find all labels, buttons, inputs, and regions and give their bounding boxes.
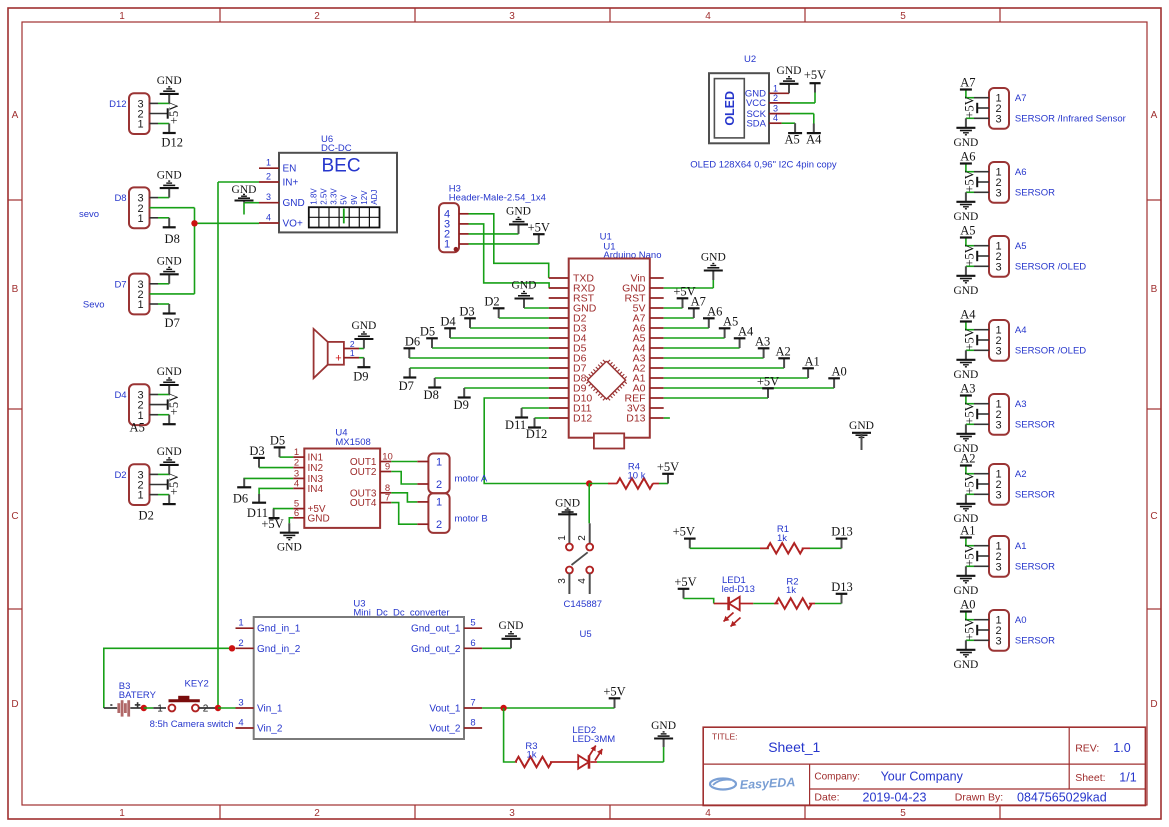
wire [218, 181, 259, 183]
svg-text:3: 3 [773, 104, 778, 114]
svg-text:+5V: +5V [963, 244, 977, 266]
DC-DC converter U6 (BEC) [259, 134, 397, 232]
svg-text:D12: D12 [109, 99, 126, 110]
wire [664, 417, 670, 419]
node A3 [960, 382, 976, 397]
svg-text:GND: GND [953, 585, 978, 597]
wire [450, 337, 549, 339]
svg-text:REV:: REV: [1075, 743, 1099, 755]
wire [966, 539, 989, 546]
ground [232, 184, 259, 215]
title block [703, 727, 1145, 805]
pushbutton switch U5 C145887 [557, 511, 602, 640]
svg-text:1/1: 1/1 [1119, 771, 1136, 785]
svg-text:SDA: SDA [746, 119, 766, 130]
wire [782, 122, 796, 124]
svg-text:D7: D7 [165, 316, 180, 330]
svg-text:6: 6 [294, 508, 299, 519]
svg-text:1: 1 [266, 158, 271, 168]
svg-text:A1: A1 [1015, 541, 1027, 552]
wire [391, 461, 417, 463]
node A0 [828, 364, 846, 388]
wire [359, 348, 364, 350]
wire [150, 208, 195, 224]
wire [244, 477, 293, 480]
svg-text:A6: A6 [1015, 167, 1027, 178]
svg-text:GND: GND [157, 75, 182, 87]
svg-text:1: 1 [436, 497, 442, 509]
wire [966, 239, 989, 246]
svg-text:A7: A7 [1015, 93, 1027, 104]
svg-text:A: A [12, 110, 19, 121]
ground [482, 620, 523, 648]
node D4 [440, 314, 456, 338]
svg-text:2: 2 [294, 458, 299, 469]
wire [432, 347, 549, 349]
svg-text:1k: 1k [526, 750, 536, 761]
svg-text:A2: A2 [1015, 469, 1027, 480]
junction [586, 480, 592, 486]
wire [469, 233, 519, 235]
node A7 [688, 294, 706, 318]
svg-text:GND: GND [512, 280, 537, 292]
svg-text:D2: D2 [139, 509, 154, 523]
svg-text:A0: A0 [1015, 615, 1027, 626]
connector D12 [109, 93, 149, 134]
svg-text:3: 3 [995, 561, 1001, 573]
ground [953, 640, 978, 671]
svg-text:D12: D12 [526, 427, 548, 441]
svg-text:A7: A7 [691, 294, 706, 308]
ground [953, 118, 978, 149]
ground [506, 206, 531, 234]
node D3 [249, 444, 264, 468]
wire [753, 603, 774, 605]
node D13 [831, 525, 853, 549]
junction [500, 705, 506, 711]
node A4 [734, 324, 754, 348]
label camera switch [150, 719, 234, 730]
svg-text:1: 1 [557, 535, 568, 541]
microcontroller U1 Arduino Nano [549, 231, 664, 448]
wire [664, 327, 709, 329]
svg-text:motor A: motor A [455, 474, 488, 485]
svg-text:Drawn By:: Drawn By: [955, 792, 1003, 804]
connector D4 [114, 384, 149, 425]
DC-DC converter U3 [236, 599, 483, 740]
wire [391, 493, 417, 502]
wire [435, 377, 549, 379]
wire [150, 197, 170, 199]
svg-text:1: 1 [238, 618, 243, 629]
svg-text:9: 9 [385, 462, 390, 473]
wire [150, 473, 170, 475]
connector A2 [989, 464, 1055, 505]
svg-text:SERSOR /OLED: SERSOR /OLED [1015, 346, 1086, 357]
motor driver U4 MX1508 [293, 428, 393, 528]
svg-text:Sheet:: Sheet: [1075, 772, 1105, 784]
svg-text:A6: A6 [960, 150, 975, 164]
svg-text:B: B [1151, 284, 1158, 295]
svg-text:D13: D13 [831, 580, 853, 594]
wire [664, 347, 740, 349]
power +5V [963, 618, 978, 640]
power +5V [963, 96, 978, 118]
svg-text:BEC: BEC [322, 156, 361, 177]
svg-text:5: 5 [900, 808, 906, 819]
node A4 [806, 124, 822, 147]
svg-text:GND: GND [499, 620, 524, 632]
svg-text:Gnd_out_1: Gnd_out_1 [411, 624, 461, 635]
wire [966, 265, 989, 267]
svg-text:3: 3 [509, 11, 515, 22]
svg-text:5V: 5V [340, 194, 349, 204]
svg-text:D: D [1150, 699, 1157, 710]
svg-text:2: 2 [577, 535, 588, 541]
svg-text:D7: D7 [114, 280, 126, 291]
svg-text:IN+: IN+ [283, 178, 299, 189]
wire [150, 223, 195, 294]
svg-text:D6: D6 [233, 491, 248, 505]
svg-text:+5V: +5V [804, 68, 826, 82]
svg-text:4: 4 [294, 478, 299, 489]
wire [499, 317, 549, 319]
wire [664, 377, 808, 379]
svg-text:D2: D2 [484, 294, 499, 308]
node D8 [163, 218, 180, 246]
svg-text:C: C [1150, 511, 1157, 522]
ground [777, 65, 802, 93]
wire [966, 493, 989, 495]
power +5V [657, 460, 679, 484]
svg-text:4: 4 [238, 718, 243, 729]
svg-text:1: 1 [350, 348, 355, 358]
ground [157, 446, 182, 474]
wire [966, 423, 989, 425]
node D11 [247, 494, 268, 520]
svg-text:Vin_1: Vin_1 [257, 704, 283, 715]
svg-text:MX1508: MX1508 [335, 437, 370, 448]
wire [150, 102, 170, 104]
svg-text:A7: A7 [960, 76, 975, 90]
svg-text:BATERY: BATERY [119, 690, 157, 701]
svg-text:Vin_2: Vin_2 [257, 724, 283, 735]
power +5V [167, 102, 181, 124]
power +5V [963, 328, 978, 350]
svg-text:+5V: +5V [673, 525, 695, 539]
svg-text:EasyEDA: EasyEDA [739, 775, 795, 792]
svg-text:8:5h Camera switch: 8:5h Camera switch [150, 719, 234, 730]
svg-text:SERSOR: SERSOR [1015, 420, 1055, 431]
node D12 [526, 418, 548, 441]
svg-text:+5V: +5V [963, 402, 977, 424]
wire [484, 398, 589, 484]
svg-text:3: 3 [266, 192, 271, 202]
svg-text:D12: D12 [161, 136, 183, 150]
ground [157, 256, 182, 284]
ground [953, 266, 978, 297]
svg-text:D4: D4 [114, 390, 126, 401]
node D2 [484, 294, 504, 318]
svg-text:Gnd_out_2: Gnd_out_2 [411, 644, 461, 655]
svg-text:10 k: 10 k [628, 471, 646, 482]
svg-text:Sevo: Sevo [83, 300, 105, 311]
wire [482, 707, 614, 709]
wire [664, 337, 725, 339]
wire [966, 191, 989, 193]
svg-text:Header-Male-2.54_1x4: Header-Male-2.54_1x4 [449, 192, 546, 203]
wire [977, 255, 989, 257]
svg-text:0847565029kad: 0847565029kad [1017, 791, 1107, 805]
wire [464, 387, 549, 389]
svg-text:8: 8 [470, 718, 475, 729]
svg-text:3: 3 [995, 113, 1001, 125]
svg-text:Gnd_in_2: Gnd_in_2 [257, 644, 301, 655]
svg-text:+5V: +5V [963, 472, 977, 494]
svg-text:A0: A0 [831, 364, 846, 378]
connector A5 [989, 236, 1086, 277]
svg-text:OLED 128X64 0,96" I2C 4pin cop: OLED 128X64 0,96" I2C 4pin copy [690, 160, 837, 171]
svg-text:GND: GND [351, 320, 376, 332]
node A2 [775, 344, 790, 368]
junction [215, 705, 221, 711]
svg-text:2: 2 [266, 172, 271, 182]
svg-text:+5V: +5V [167, 393, 181, 415]
svg-text:D5: D5 [270, 434, 285, 448]
svg-text:2: 2 [773, 93, 778, 103]
node A1 [802, 354, 819, 378]
svg-text:SERSOR /OLED: SERSOR /OLED [1015, 262, 1086, 273]
svg-text:3: 3 [995, 261, 1001, 273]
OLED display U2 [709, 54, 790, 143]
svg-text:5: 5 [900, 11, 906, 22]
node D3 [459, 304, 475, 328]
svg-text:+5V: +5V [963, 544, 977, 566]
wire [977, 629, 989, 631]
ground [651, 720, 676, 747]
svg-text:D12: D12 [573, 413, 592, 425]
power +5V [528, 220, 550, 244]
svg-text:D6: D6 [405, 334, 420, 348]
svg-text:GND: GND [283, 198, 305, 209]
battery B3 [104, 681, 157, 717]
svg-text:A5: A5 [784, 133, 799, 147]
svg-text:SERSOR /Infrared Sensor: SERSOR /Infrared Sensor [1015, 114, 1126, 125]
svg-text:4: 4 [773, 113, 778, 123]
svg-text:VCC: VCC [746, 98, 766, 109]
ground [555, 497, 580, 514]
wire [977, 413, 989, 415]
node A5 [960, 224, 976, 239]
svg-text:+5V: +5V [657, 460, 679, 474]
node D7 [163, 304, 180, 330]
resistor R4 [608, 462, 659, 489]
node A4 [960, 308, 976, 323]
svg-text:Company:: Company: [814, 772, 860, 783]
wire [104, 648, 232, 708]
svg-text:1: 1 [773, 83, 778, 93]
svg-text:U2: U2 [744, 54, 756, 65]
svg-text:1: 1 [137, 490, 143, 502]
wire [977, 181, 989, 183]
ground [157, 366, 182, 394]
wire [966, 323, 989, 330]
wire [690, 547, 769, 549]
svg-text:OUT4: OUT4 [350, 498, 377, 509]
wire [977, 107, 989, 109]
svg-text:GND: GND [157, 446, 182, 458]
svg-text:A5: A5 [130, 421, 145, 435]
svg-text:D: D [11, 699, 18, 710]
power +5V [261, 509, 283, 531]
ground [953, 494, 978, 525]
wire [966, 613, 989, 620]
wire [195, 222, 260, 224]
wire [659, 483, 668, 485]
wire [589, 483, 608, 485]
resistor R2 [774, 577, 815, 609]
wire [150, 404, 168, 406]
wire [150, 217, 170, 219]
wire [664, 367, 784, 369]
power +5V [757, 374, 779, 398]
svg-text:3: 3 [995, 187, 1001, 199]
wire [217, 182, 219, 708]
svg-text:+5V: +5V [963, 328, 977, 350]
wire [150, 283, 170, 285]
wire [684, 599, 714, 604]
svg-text:A4: A4 [1015, 325, 1027, 336]
svg-text:sevo: sevo [79, 209, 99, 220]
wire [966, 349, 989, 351]
node D6 [404, 334, 421, 358]
wire [522, 407, 549, 409]
svg-text:9V: 9V [350, 194, 359, 204]
wire [966, 91, 989, 98]
junction [141, 705, 147, 711]
wire [259, 488, 293, 494]
svg-text:C145887: C145887 [564, 599, 603, 610]
wire [150, 113, 168, 115]
wire [966, 467, 989, 474]
svg-text:Gnd_in_1: Gnd_in_1 [257, 624, 301, 635]
svg-text:GND: GND [953, 369, 978, 381]
svg-text:6: 6 [470, 638, 475, 649]
power +5V [963, 244, 978, 266]
svg-text:3: 3 [995, 635, 1001, 647]
svg-text:A3: A3 [960, 382, 975, 396]
power +5V [963, 402, 978, 424]
LED LED1 [714, 575, 755, 626]
power +5V [167, 393, 181, 415]
svg-text:3: 3 [509, 808, 515, 819]
connector A0 [989, 610, 1055, 651]
svg-text:5: 5 [470, 618, 475, 629]
wire [289, 518, 293, 523]
ground [953, 566, 978, 597]
power +5V [963, 170, 978, 192]
junction [229, 645, 235, 651]
wire [469, 243, 539, 245]
svg-text:Vout_1: Vout_1 [429, 704, 461, 715]
svg-text:1.0: 1.0 [1113, 741, 1130, 755]
svg-text:SERSOR: SERSOR [1015, 562, 1055, 573]
svg-text:C: C [11, 511, 18, 522]
connector motor B [417, 493, 487, 533]
wire [977, 555, 989, 557]
node A6 [703, 304, 722, 328]
wire [966, 639, 989, 641]
node D9 [353, 358, 370, 384]
svg-text:+: + [335, 353, 341, 365]
svg-text:Date:: Date: [814, 792, 839, 804]
node D7 [399, 368, 417, 393]
node A5 [784, 123, 802, 146]
svg-text:1: 1 [119, 808, 125, 819]
EasyEDA logo [710, 775, 796, 792]
svg-text:Vout_2: Vout_2 [429, 724, 461, 735]
node D8 [424, 378, 442, 402]
svg-text:IN2: IN2 [308, 463, 324, 474]
svg-text:A6: A6 [707, 304, 722, 318]
svg-text:D11: D11 [505, 418, 526, 432]
wire [810, 547, 842, 549]
svg-text:led-D13: led-D13 [722, 584, 755, 595]
svg-text:GND: GND [308, 513, 330, 524]
svg-text:GND: GND [277, 542, 302, 554]
wire [966, 397, 989, 404]
svg-text:2: 2 [238, 638, 243, 649]
pushbutton KEY2 [153, 679, 218, 715]
node D6 [233, 478, 251, 505]
svg-text:GND: GND [701, 252, 726, 264]
svg-text:3: 3 [995, 345, 1001, 357]
svg-text:1: 1 [119, 11, 125, 22]
svg-text:D3: D3 [249, 444, 264, 458]
svg-text:A1: A1 [804, 354, 819, 368]
junction [191, 220, 197, 226]
svg-text:+5V: +5V [167, 102, 181, 124]
node D13 [831, 580, 853, 604]
node D5 [420, 324, 438, 348]
svg-text:2.5V: 2.5V [319, 188, 328, 205]
ground [953, 192, 978, 223]
svg-text:D9: D9 [454, 398, 469, 412]
svg-text:4: 4 [266, 213, 271, 223]
wire [977, 483, 989, 485]
wire [150, 414, 170, 416]
power +5V [673, 525, 696, 549]
wire [664, 387, 834, 389]
svg-text:GND: GND [157, 256, 182, 268]
svg-text:+5V: +5V [167, 473, 181, 495]
svg-text:D5: D5 [420, 324, 435, 338]
wire [391, 472, 417, 485]
svg-text:A4: A4 [806, 133, 822, 147]
wire [280, 456, 294, 458]
ground [351, 320, 376, 348]
connector A6 [989, 162, 1055, 203]
power +5V [673, 284, 695, 308]
svg-text:GND: GND [849, 420, 874, 432]
svg-text:1: 1 [137, 213, 143, 225]
svg-text:GND: GND [953, 137, 978, 149]
svg-text:2: 2 [203, 704, 209, 715]
svg-text:3: 3 [995, 489, 1001, 501]
power +5V [963, 544, 978, 566]
svg-text:3: 3 [238, 698, 243, 709]
node D2 [139, 495, 176, 523]
